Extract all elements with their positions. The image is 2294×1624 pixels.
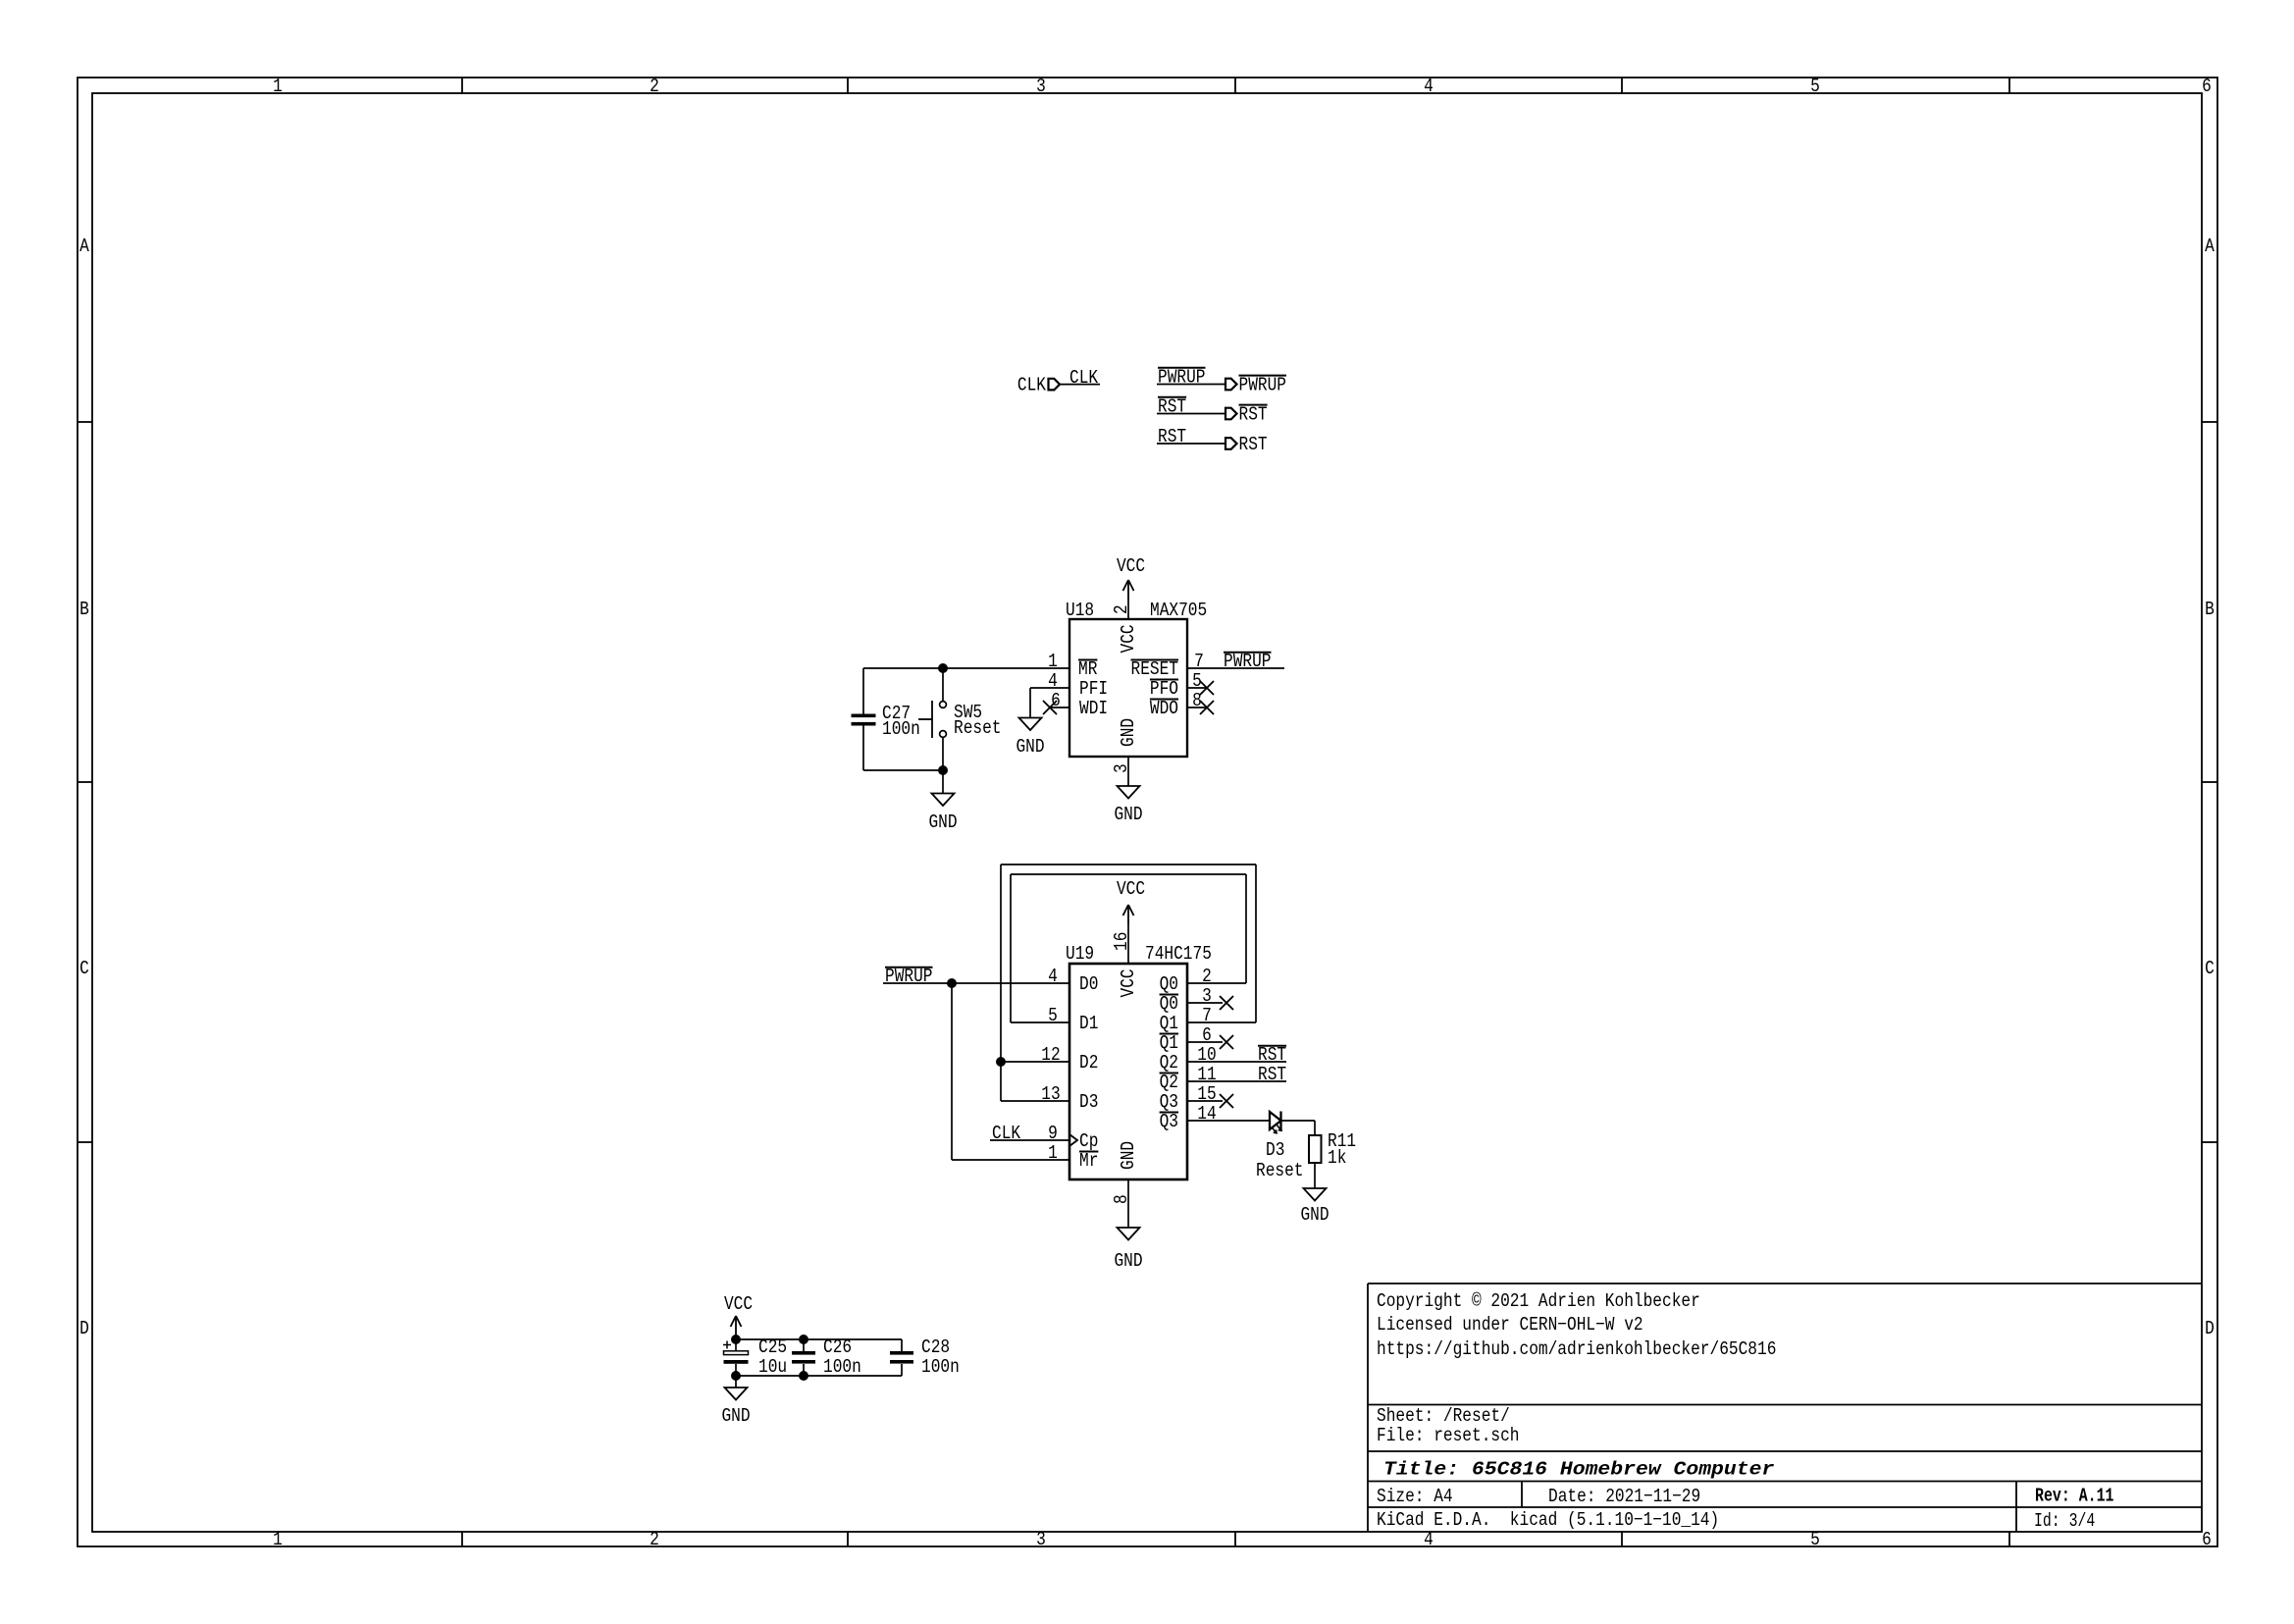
wire VCC rail [736, 1338, 902, 1340]
wire bottom of C27/SW5 [863, 769, 943, 771]
wire Q1 to D2/D3 (outer loop) [1001, 864, 1256, 1101]
svg-text:D: D [79, 1318, 89, 1339]
svg-text:D2: D2 [1079, 1052, 1098, 1074]
title block [1368, 1283, 2202, 1532]
svg-text:U18: U18 [1066, 600, 1094, 621]
svg-text:A: A [79, 236, 89, 257]
svg-text:D0: D0 [1079, 973, 1098, 995]
no-connect pin 15 [1220, 1094, 1233, 1108]
junction [799, 1371, 808, 1381]
svg-text:GND: GND [1118, 1141, 1139, 1170]
hierarchical input connector CLK [1017, 374, 1060, 395]
capacitor C27 100n [852, 668, 920, 770]
junction [799, 1335, 808, 1344]
svg-text:MR: MR [1078, 658, 1097, 680]
pin 6 stub [1050, 707, 1069, 708]
pin 8 stub [1127, 1179, 1129, 1228]
svg-text:1: 1 [273, 76, 283, 97]
svg-text:Size: A4: Size: A4 [1377, 1486, 1453, 1507]
svg-text:VCC: VCC [1117, 878, 1145, 900]
ground GND below capacitor bank [721, 1388, 750, 1427]
net label ~PWRUP at D0 [885, 966, 933, 987]
no-connect pin 8 [1200, 701, 1214, 714]
wire CLK to Cp [990, 1139, 1069, 1141]
wire ~Q3 to D3 [1187, 1120, 1270, 1122]
svg-text:GND: GND [1016, 736, 1044, 758]
svg-text:U19: U19 [1066, 943, 1094, 965]
svg-text:A: A [2205, 236, 2215, 257]
junction at D2 [996, 1057, 1006, 1067]
svg-text:1: 1 [273, 1529, 283, 1550]
svg-text:RST: RST [1258, 1064, 1286, 1085]
svg-text:RST: RST [1158, 426, 1186, 447]
wire ~RST from Q2 [1187, 1061, 1286, 1063]
pin name ~Mr (pin 1) [1079, 1150, 1098, 1172]
pin 15 stub [1187, 1100, 1223, 1102]
svg-text:KiCad E.D.A. kicad (5.1.10−1−: KiCad E.D.A. kicad (5.1.10−1−10_14) [1377, 1509, 1719, 1531]
net label ~PWRUP (overline) [1158, 367, 1206, 389]
svg-text:74HC175: 74HC175 [1145, 943, 1212, 965]
svg-text:2: 2 [650, 1529, 659, 1550]
svg-text:GND: GND [1300, 1204, 1329, 1226]
wire ~PWRUP to output connector [1157, 384, 1225, 386]
wire RST from ~Q2 [1187, 1080, 1286, 1082]
wire PFI to ground [1030, 687, 1069, 689]
svg-text:File: reset.sch: File: reset.sch [1377, 1425, 1520, 1446]
pin name ~MR (pin 1) [1078, 658, 1097, 680]
svg-text:RST: RST [1258, 1044, 1286, 1066]
pin name ~Q2 (pin 11) [1160, 1072, 1178, 1093]
svg-text:Reset: Reset [954, 717, 1002, 739]
svg-text:Date: 2021−11−29: Date: 2021−11−29 [1548, 1486, 1700, 1507]
svg-text:3: 3 [1036, 1529, 1046, 1550]
svg-text:PWRUP: PWRUP [1224, 651, 1272, 672]
svg-text:1k: 1k [1328, 1147, 1346, 1169]
capacitor C28 100n [890, 1336, 960, 1378]
pin name ~WDO (pin 8) [1150, 698, 1178, 719]
pin name Cp (pin 9) with clock mark [1069, 1130, 1098, 1152]
svg-text:D3: D3 [1079, 1091, 1098, 1113]
wire to ground [735, 1376, 737, 1388]
svg-text:GND: GND [1114, 1250, 1142, 1272]
svg-text:D: D [2205, 1318, 2215, 1339]
svg-text:C26: C26 [823, 1336, 852, 1358]
wire ~PWRUP to D0 [883, 982, 1069, 984]
svg-text:C: C [79, 958, 89, 979]
junction [731, 1371, 741, 1381]
pin name ~RESET (pin 7) [1131, 658, 1179, 680]
svg-text:WDI: WDI [1079, 698, 1108, 719]
svg-text:B: B [79, 599, 89, 620]
pin 3 stub [1127, 757, 1129, 786]
svg-text:VCC: VCC [724, 1293, 753, 1315]
junction [947, 978, 957, 988]
svg-text:6: 6 [2202, 76, 2212, 97]
wire ~MR net [863, 667, 1069, 669]
svg-text:5: 5 [1810, 1529, 1820, 1550]
svg-text:Reset: Reset [1256, 1160, 1304, 1181]
pin name ~Q3 (pin 14) [1160, 1111, 1178, 1132]
svg-text:CLK: CLK [1069, 367, 1099, 389]
junction [938, 765, 948, 775]
svg-text:Sheet: /Reset/: Sheet: /Reset/ [1377, 1405, 1510, 1427]
svg-text:4: 4 [1424, 76, 1434, 97]
pin name ~Q0 (pin 3) [1160, 993, 1178, 1015]
wire RST to output connector [1157, 443, 1225, 445]
svg-text:2: 2 [650, 76, 659, 97]
svg-text:PWRUP: PWRUP [1158, 367, 1206, 389]
svg-text:VCC: VCC [1118, 624, 1139, 653]
svg-text:Q2: Q2 [1160, 1052, 1178, 1074]
power VCC at capacitor bank [724, 1293, 753, 1339]
wire to ground [942, 770, 944, 794]
switch SW5 Reset [918, 668, 1002, 770]
junction [731, 1335, 741, 1344]
wire Q0 to D1 (inner loop) [1011, 874, 1246, 1022]
ground GND at U19 pin 8 [1114, 1228, 1142, 1272]
svg-text:Rev: A.11: Rev: A.11 [2035, 1486, 2114, 1507]
svg-text:6: 6 [2202, 1529, 2212, 1550]
svg-text:GND: GND [928, 812, 957, 833]
hierarchical output connector ~PWRUP [1225, 374, 1286, 395]
svg-text:C28: C28 [921, 1336, 950, 1358]
svg-text:3: 3 [1036, 76, 1046, 97]
LED D3 Reset [1256, 1112, 1304, 1182]
wire D3 to R11 [1281, 1120, 1316, 1122]
svg-text:Licensed under CERN−OHL−W v2: Licensed under CERN−OHL−W v2 [1377, 1314, 1643, 1336]
capacitor C25 10u (polarized) [723, 1336, 787, 1378]
svg-text:D3: D3 [1266, 1139, 1284, 1161]
svg-text:WDO: WDO [1150, 698, 1178, 719]
svg-text:RESET: RESET [1131, 658, 1179, 680]
pin name ~PFO (pin 5) [1150, 678, 1178, 700]
svg-text:GND: GND [721, 1405, 750, 1427]
svg-text:PWRUP: PWRUP [1239, 374, 1287, 395]
svg-text:PFO: PFO [1150, 678, 1178, 700]
svg-text:100n: 100n [921, 1356, 960, 1378]
no-connect pin 3 [1220, 996, 1233, 1010]
svg-text:D1: D1 [1079, 1013, 1098, 1034]
svg-text:GND: GND [1114, 804, 1142, 825]
ground GND at U18 pin 4 [1016, 718, 1044, 759]
svg-text:RST: RST [1239, 403, 1268, 425]
pin 8 stub [1187, 707, 1207, 708]
svg-text:RST: RST [1239, 434, 1268, 455]
wire down to ~Mr [951, 983, 953, 1160]
ground GND below SW5 [928, 794, 957, 834]
ground GND below R11 [1300, 1188, 1329, 1226]
svg-text:Copyright © 2021 Adrien Kohlbe: Copyright © 2021 Adrien Kohlbecker [1377, 1290, 1700, 1312]
power VCC at U19 [1117, 878, 1145, 924]
no-connect pin 6 [1220, 1035, 1233, 1049]
pin 2 stub [1127, 600, 1129, 619]
svg-text:100n: 100n [882, 718, 920, 740]
wire GND rail [736, 1375, 902, 1377]
svg-text:B: B [2205, 599, 2215, 620]
power VCC at U18 [1117, 555, 1145, 600]
IC U19 74HC175 body [1069, 964, 1187, 1179]
svg-text:VCC: VCC [1118, 969, 1139, 997]
svg-text:10u: 10u [758, 1356, 787, 1378]
svg-text:100n: 100n [823, 1356, 861, 1378]
svg-text:Title: 65C816 Homebrew Compute: Title: 65C816 Homebrew Computer [1383, 1459, 1775, 1481]
svg-text:MAX705: MAX705 [1150, 600, 1207, 621]
capacitor C26 100n [792, 1336, 861, 1378]
svg-text:Mr: Mr [1079, 1150, 1098, 1172]
svg-text:C25: C25 [758, 1336, 787, 1358]
net label ~PWRUP at pin 7 [1224, 651, 1272, 672]
svg-text:https://github.com/adrienkohlb: https://github.com/adrienkohlbecker/65C8… [1377, 1338, 1776, 1360]
pin 5 stub [1187, 687, 1207, 689]
svg-text:Q1: Q1 [1160, 1032, 1178, 1054]
svg-text:5: 5 [1810, 76, 1820, 97]
pin 3 stub [1187, 1002, 1223, 1004]
pin 16 stub [1127, 924, 1129, 964]
svg-text:C: C [2205, 958, 2215, 979]
wire ~RST to output connector [1157, 413, 1225, 415]
svg-text:Q0: Q0 [1160, 993, 1178, 1015]
hierarchical output connector ~RST [1225, 403, 1268, 425]
svg-text:GND: GND [1118, 718, 1139, 747]
pin name ~Q1 (pin 6) [1160, 1032, 1178, 1054]
wire ~PWRUP from pin 7 [1187, 667, 1284, 669]
wire CLK [1060, 384, 1100, 386]
svg-text:VCC: VCC [1117, 555, 1145, 577]
junction [938, 663, 948, 673]
net label ~RST [1258, 1044, 1286, 1066]
ground GND at U18 pin 3 [1114, 786, 1142, 825]
svg-text:Cp: Cp [1079, 1130, 1098, 1152]
svg-text:Q3: Q3 [1160, 1111, 1178, 1132]
svg-text:Id: 3/4: Id: 3/4 [2034, 1510, 2095, 1532]
svg-text:Q2: Q2 [1160, 1072, 1178, 1093]
svg-text:Q3: Q3 [1160, 1091, 1178, 1113]
hierarchical output connector RST [1225, 434, 1268, 455]
svg-text:Q1: Q1 [1160, 1013, 1178, 1034]
svg-text:4: 4 [1424, 1529, 1434, 1550]
svg-text:Q0: Q0 [1160, 973, 1178, 995]
pin 6 stub [1187, 1041, 1223, 1043]
wire to D2 [1001, 1061, 1069, 1063]
svg-text:RST: RST [1158, 396, 1186, 418]
no-connect pin 5 [1200, 681, 1214, 695]
svg-text:CLK: CLK [1017, 374, 1047, 395]
net label ~RST (overline) [1158, 396, 1186, 418]
svg-text:PFI: PFI [1079, 678, 1108, 700]
resistor R11 1k [1309, 1130, 1356, 1169]
no-connect pin 6 [1043, 701, 1057, 714]
IC U18 MAX705 body [1069, 619, 1187, 757]
wire R11 to ground [1314, 1163, 1316, 1188]
